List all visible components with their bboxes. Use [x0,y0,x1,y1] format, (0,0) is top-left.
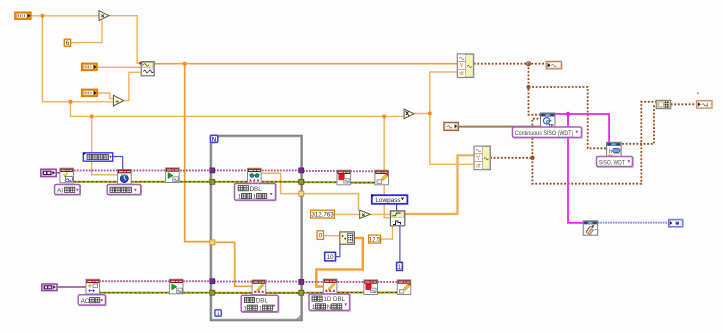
DAQmx read inside loop [248,168,262,183]
svg-text:DBL: DBL [250,186,263,193]
svg-text:÷: ÷ [115,98,119,105]
wire: get-components out to indicator [671,103,697,105]
svg-text:×: × [362,213,366,219]
numeric constant 312.763 [311,210,335,218]
wire: ramp pattern array out, loops around to AO write N samples [316,238,363,287]
svg-text:312.763: 312.763 [311,211,334,218]
DAQmx physical channel control row2 [42,284,57,291]
wire: brown solid waveform constant into CD construct [458,126,541,128]
wire: reciprocal output to dt inputs of both Build Waveform nodes [414,72,473,164]
enum constant Lowpass (blue) [371,195,407,204]
svg-text:DBL: DBL [256,298,269,305]
polymorphic selector label AI voltage [55,185,81,196]
wire: DBL net from control T1 (frequency) [31,16,405,218]
tunnel: purple row2 left [210,279,215,284]
stray dot artifact top right [697,92,699,94]
wire: waveform brown dashed BW1 out to indicator [474,63,547,65]
svg-text:AI: AI [57,188,63,195]
get waveform components icon [656,100,671,108]
tunnel: orange sim data left [210,240,215,245]
DAQmx create virtual channel AO [86,279,100,294]
wire: equation string zigzag to indicator [598,222,669,224]
svg-text:AO: AO [81,298,90,305]
wire: magenta model wire CD construct to SISO estimator [555,114,609,142]
loop count terminal N [210,135,217,143]
tunnel: purple row1 right [299,168,304,173]
wire: error cluster dashed row1 [74,181,375,184]
wire: control T3 to divide [97,93,114,99]
svg-text:10: 10 [327,254,334,261]
tunnel: error row1 right [299,179,304,184]
wire: blue Lowpass enum into filter top [396,204,398,212]
svg-text:dt: dt [476,163,481,169]
polymorphic selector label analog 1D DBL 1chan N samp [309,294,350,311]
wire: blue enum continuous-sampling to sample clock [113,157,123,171]
multiply node top [99,11,109,21]
numeric constant 0 [317,231,323,240]
wire: control T2 to sim icon [97,66,141,68]
svg-text:0: 0 [319,233,323,240]
junction dot magenta [566,112,570,116]
svg-text:N: N [212,137,216,143]
wire: constant 12.5 to filter lower input [380,226,392,239]
svg-text:Lowpass: Lowpass [375,197,400,204]
DAQmx start task row1 [166,168,180,183]
wire: filter output up to Build Waveform 2 Y input [405,155,475,214]
svg-text:12.5: 12.5 [369,237,381,243]
reciprocal node [404,109,414,119]
svg-text:Y: Y [459,64,463,70]
junction dots brown [527,62,535,160]
DAQmx start task row2 [169,279,183,294]
wire: purple solid I/O terminal row1 to create channel [56,172,60,174]
wire: magenta branch down to CD Draw [568,114,583,223]
indicator waveform graph terminal (top right of BW1) [546,61,561,68]
wire: purple solid I/O terminal row2 to AO create channel [57,286,86,288]
wire: sim output long horizontal to Build Waveform 1 Y, branch down to loop tunnel and AO write [155,64,458,287]
wire: divide output to sim icon [123,72,140,100]
control terminal T1 frequency [15,12,31,19]
indicator terminal top right [697,101,712,109]
svg-text:SISO, WDT: SISO, WDT [599,159,625,166]
wire: DAQmx Read sample out of loop to multiply2 [262,173,359,211]
svg-text:N: N [327,304,331,311]
polymorphic selector label SISO, WDT [597,157,634,168]
DAQmx physical channel control row1 [41,169,56,176]
multiply node 2 [360,210,371,219]
wire: constant 312.763 to multiply2 [334,213,359,215]
polymorphic selector label AO voltage [78,295,106,306]
wire: SISO estimator out up to get-components icon [622,106,656,144]
numeric constant 12.5 [369,235,381,243]
DAQmx clear task row1 [375,170,389,185]
polymorphic selector label sample clock [107,185,141,196]
wire: BW2 out, down and around to get-components icon [490,102,656,184]
indicator equation terminal (periwinkle) [669,220,683,227]
wire: waveform brown vertical branch [529,64,541,115]
Build Waveform node 2 [474,146,490,170]
waveform constant terminal (brown) [444,122,458,130]
svg-text:dt: dt [459,71,464,77]
DAQmx create virtual channel AI [60,168,74,183]
wire: error cluster dashed row2 [99,291,397,294]
wire: blue constant 1 up to filter bottom [399,226,401,263]
loop resize handle [297,315,302,320]
tunnel: error row2 left [210,290,215,295]
svg-text:Continuous SISO (WDT): Continuous SISO (WDT) [515,130,574,137]
tunnel: purple row1 left [210,168,215,173]
numeric constant 1 (blue) [397,262,403,271]
tunnel: orange sample out right [299,191,304,196]
loop iteration terminal i [215,310,221,318]
wire: constant 0 to ramp pattern [323,235,340,237]
DAQmx stop task row1 [337,170,351,185]
CD construct transfer function model [541,113,556,128]
polymorphic selector label analog DBL 1chan 1samp [235,184,277,201]
ramp pattern VI [340,232,355,244]
wire: waveform brown branch to SISO estimator input [529,87,607,148]
DAQmx sample clock timing [118,170,132,185]
filter express VI [390,211,404,226]
polymorphic selector label Continuous SISO (WDT) [513,127,583,138]
wire: constant 6 to multiply [70,20,102,43]
svg-text:6: 6 [66,40,70,47]
wire: multiply2 output to filter [370,213,391,215]
polymorphic selector label analog DBL 1chan 1samp (AO write in loop) [241,295,279,312]
constant 6 [64,39,70,47]
sine signal VI icon [141,62,154,76]
svg-text:×: × [101,13,105,20]
CD draw transfer function equation [583,221,598,235]
divide node [113,95,123,106]
tunnel: error row2 right [299,290,304,295]
wire: blue constant 10 to ramp pattern bottom [336,244,340,256]
SI estimate transfer function (SISO WDT) [607,142,622,156]
wire: multiply output to sim icon [109,16,141,64]
tunnel: purple row2 right [299,279,304,284]
DAQmx write inside loop [252,280,266,295]
for loop frame [211,136,302,320]
tunnel: error row1 left [210,179,215,184]
numeric constant 10 (blue) [325,252,336,261]
svg-text:1D DBL: 1D DBL [323,296,345,303]
coercion dot red [139,62,142,65]
wire: DAQmx task purple dashed row1 [74,169,375,172]
control terminal T3 [82,89,98,96]
svg-text:1: 1 [398,264,402,271]
enum constant continuous sampling (blue, CJK) [83,153,112,161]
Build Waveform node 1 [457,54,473,78]
svg-text:Y: Y [476,156,480,162]
control terminal T2 amplitude [82,63,97,70]
junction dots orange [40,14,431,119]
DAQmx clear task row2 [397,280,411,295]
DAQmx write N samples [323,279,337,294]
DAQmx stop task row2 [364,280,378,295]
svg-text:h: h [609,149,612,155]
wire: DAQmx task purple dashed row2 [99,280,397,283]
